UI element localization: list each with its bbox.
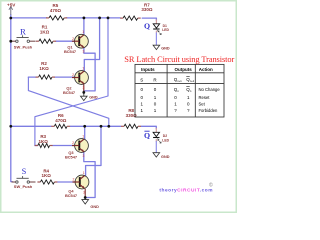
svg-text:Q: Q (144, 131, 150, 140)
svg-text:LED: LED (162, 138, 169, 142)
svg-text:3: 3 (82, 154, 84, 158)
svg-text:SW_Push: SW_Push (14, 44, 33, 49)
svg-text:2: 2 (72, 141, 74, 145)
svg-text:2: 2 (72, 37, 74, 41)
svg-text:BC547: BC547 (65, 193, 77, 198)
svg-text:3: 3 (82, 86, 84, 90)
svg-text:BC547: BC547 (63, 90, 75, 95)
svg-text:2: 2 (72, 73, 74, 77)
svg-text:1: 1 (82, 30, 84, 34)
svg-text:BC547: BC547 (65, 154, 77, 159)
svg-text:Set: Set (199, 102, 206, 107)
svg-text:SW_Push: SW_Push (14, 184, 33, 189)
svg-text:1KΩ: 1KΩ (40, 29, 50, 34)
svg-text:2: 2 (73, 178, 75, 182)
svg-text:Forbidden: Forbidden (199, 108, 219, 113)
svg-text:1KΩ: 1KΩ (39, 139, 49, 144)
svg-text:1: 1 (82, 67, 84, 71)
svg-text:GND: GND (161, 155, 170, 159)
svg-text:1KΩ: 1KΩ (42, 173, 52, 178)
svg-text:theoryCIRCUIT.com: theoryCIRCUIT.com (159, 188, 213, 194)
svg-text:1KΩ: 1KΩ (39, 66, 49, 71)
svg-text:GND: GND (161, 46, 170, 50)
svg-text:LED: LED (162, 28, 169, 32)
svg-text:+5V: +5V (7, 2, 16, 7)
svg-text:GND: GND (90, 205, 99, 209)
svg-text:S: S (140, 77, 143, 82)
svg-text:Inputs: Inputs (141, 67, 155, 72)
svg-text:470Ω: 470Ω (50, 8, 62, 13)
svg-text:SR Latch Circuit using Transis: SR Latch Circuit using Transistor (124, 55, 234, 64)
svg-text:Outputs: Outputs (174, 67, 192, 72)
svg-text:3: 3 (82, 50, 84, 54)
svg-text:R: R (20, 27, 26, 37)
svg-text:330Ω: 330Ω (141, 7, 153, 12)
svg-text:No Change: No Change (199, 87, 221, 92)
svg-text:Reset: Reset (199, 95, 211, 100)
svg-text:GND: GND (89, 96, 98, 100)
svg-text:470Ω: 470Ω (55, 118, 67, 123)
svg-text:Q: Q (144, 22, 150, 31)
svg-text:©: © (209, 181, 213, 188)
svg-text:Action: Action (199, 67, 213, 72)
svg-text:1: 1 (82, 135, 84, 139)
svg-text:3: 3 (83, 190, 85, 194)
svg-text:1: 1 (83, 171, 85, 175)
svg-text:S: S (22, 167, 27, 176)
svg-text:BC547: BC547 (64, 49, 76, 54)
